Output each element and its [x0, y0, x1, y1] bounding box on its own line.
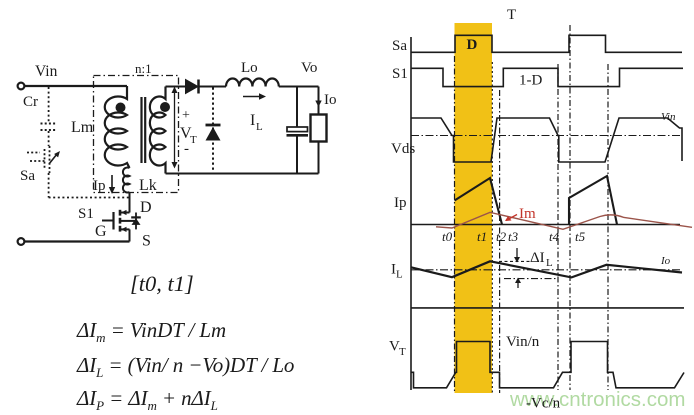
svg-text:S: S	[142, 233, 151, 250]
time line t1/t2	[491, 62, 493, 393]
svg-text:I: I	[250, 112, 255, 129]
svg-text:t5: t5	[575, 229, 586, 244]
waveform VT	[389, 334, 684, 412]
waveform Sa	[392, 35, 682, 54]
svg-text:Sa: Sa	[392, 38, 407, 54]
transformer secondary winding	[150, 87, 166, 174]
svg-text:S1: S1	[392, 66, 408, 82]
capacitor Cr (dotted clamp branch)	[23, 87, 57, 146]
label n:1	[135, 61, 152, 76]
axis separator IL/VT	[411, 307, 684, 309]
svg-text:t1: t1	[477, 229, 487, 244]
svg-text:+: +	[182, 108, 190, 123]
label t5	[575, 229, 586, 244]
wire secondary top rail	[166, 86, 319, 88]
diode D2 freewheeling (dotted branch)	[206, 88, 221, 174]
waveform S1	[392, 66, 683, 89]
waveform Vds	[391, 111, 682, 162]
time line t0	[454, 56, 456, 393]
text [t0, t1]	[130, 271, 194, 296]
time line period end	[607, 64, 609, 390]
svg-text:G: G	[95, 223, 107, 240]
svg-text:S1: S1	[78, 206, 94, 222]
annotation VT (+/- with double arrow)	[172, 87, 198, 169]
curve Im magnetizing current	[436, 212, 692, 229]
svg-text:Cr: Cr	[23, 94, 38, 110]
svg-text:ΔI: ΔI	[530, 250, 545, 266]
svg-text:D: D	[140, 199, 152, 216]
transistor S1 MOSFET	[78, 192, 152, 250]
transistor Sa (dotted auxiliary switch)	[20, 146, 60, 184]
annotation Ip arrow	[93, 175, 115, 194]
svg-text:Ip: Ip	[394, 195, 407, 211]
wire dotted clamp return	[49, 173, 130, 198]
highlight band D interval	[455, 23, 493, 393]
svg-text:1-D: 1-D	[519, 73, 542, 89]
terminal Vin-	[18, 238, 25, 245]
terminal Vin+	[18, 83, 25, 90]
time line t3	[499, 90, 501, 393]
svg-text:T: T	[399, 346, 406, 358]
svg-text:[t0, t1]: [t0, t1]	[130, 271, 194, 296]
wire secondary bottom rail	[166, 173, 319, 175]
svg-text:T: T	[507, 7, 516, 23]
wire bottom input rail	[25, 240, 130, 242]
label t1	[477, 229, 487, 244]
wire top input rail	[25, 85, 128, 87]
polarity dot primary	[116, 103, 126, 113]
svg-text:L: L	[256, 121, 263, 133]
svg-text:Sa: Sa	[20, 168, 35, 184]
svg-text:Lm: Lm	[71, 119, 94, 136]
resistor load	[311, 87, 327, 174]
transformer core	[142, 97, 146, 163]
formula delta-Ip	[76, 386, 218, 413]
label t3	[508, 229, 519, 244]
svg-text:T: T	[190, 134, 197, 146]
svg-text:Ip: Ip	[93, 178, 106, 194]
label Vin	[35, 63, 58, 80]
svg-text:D: D	[467, 37, 478, 53]
annotation delta IL	[499, 248, 557, 288]
svg-text:-Vc/n: -Vc/n	[526, 396, 561, 412]
svg-text:t0: t0	[442, 229, 453, 244]
svg-text:Im: Im	[519, 206, 536, 222]
time line t5	[569, 25, 571, 390]
svg-text:Vin: Vin	[35, 63, 58, 80]
axis vertical	[410, 37, 412, 390]
svg-text:L: L	[396, 269, 403, 281]
svg-text:Vds: Vds	[391, 141, 415, 157]
annotation IL arrow	[243, 93, 266, 133]
svg-text:Io: Io	[324, 92, 337, 108]
svg-text:Io: Io	[660, 255, 671, 267]
svg-text:ΔIP = ΔIm + nΔIL: ΔIP = ΔIm + nΔIL	[76, 386, 218, 413]
svg-text:Vo: Vo	[301, 60, 317, 76]
transformer boundary box (dash-dot)	[94, 76, 179, 193]
formula delta-Im	[76, 318, 226, 345]
watermark www.cntronics.com	[509, 388, 685, 411]
svg-text:t4: t4	[549, 229, 560, 244]
svg-text:n:1: n:1	[135, 61, 152, 76]
annotation Io arrow	[315, 89, 336, 108]
label Vo	[301, 60, 317, 76]
svg-text:L: L	[546, 257, 553, 269]
label T	[507, 7, 516, 23]
label t2	[496, 229, 507, 244]
svg-text:t3: t3	[508, 229, 519, 244]
svg-text:ΔIm = VinDT / Lm: ΔIm = VinDT / Lm	[76, 318, 226, 345]
annotation Im (red)	[505, 206, 536, 222]
formula delta-IL	[76, 353, 294, 380]
svg-text:t2: t2	[496, 229, 507, 244]
time line t4	[557, 64, 559, 390]
diode D1 rectifier	[186, 80, 199, 94]
inductor Lo	[226, 60, 279, 87]
inductor Lk	[123, 168, 157, 194]
svg-text:Lo: Lo	[241, 60, 258, 76]
label Lm	[71, 119, 94, 136]
waveform IL	[391, 255, 682, 281]
svg-text:Vin/n: Vin/n	[506, 334, 540, 350]
label t4	[549, 229, 560, 244]
transformer primary winding	[105, 86, 130, 168]
svg-text:ΔIL = (Vin/ n −Vo)DT / Lo: ΔIL = (Vin/ n −Vo)DT / Lo	[76, 353, 294, 380]
polarity dot secondary	[160, 102, 170, 112]
label t0	[442, 229, 453, 244]
svg-text:Lk: Lk	[139, 177, 157, 194]
waveform Ip	[394, 176, 680, 225]
svg-text:Vin: Vin	[661, 111, 676, 123]
capacitor Co output	[287, 87, 309, 174]
svg-text:-: -	[184, 141, 189, 157]
